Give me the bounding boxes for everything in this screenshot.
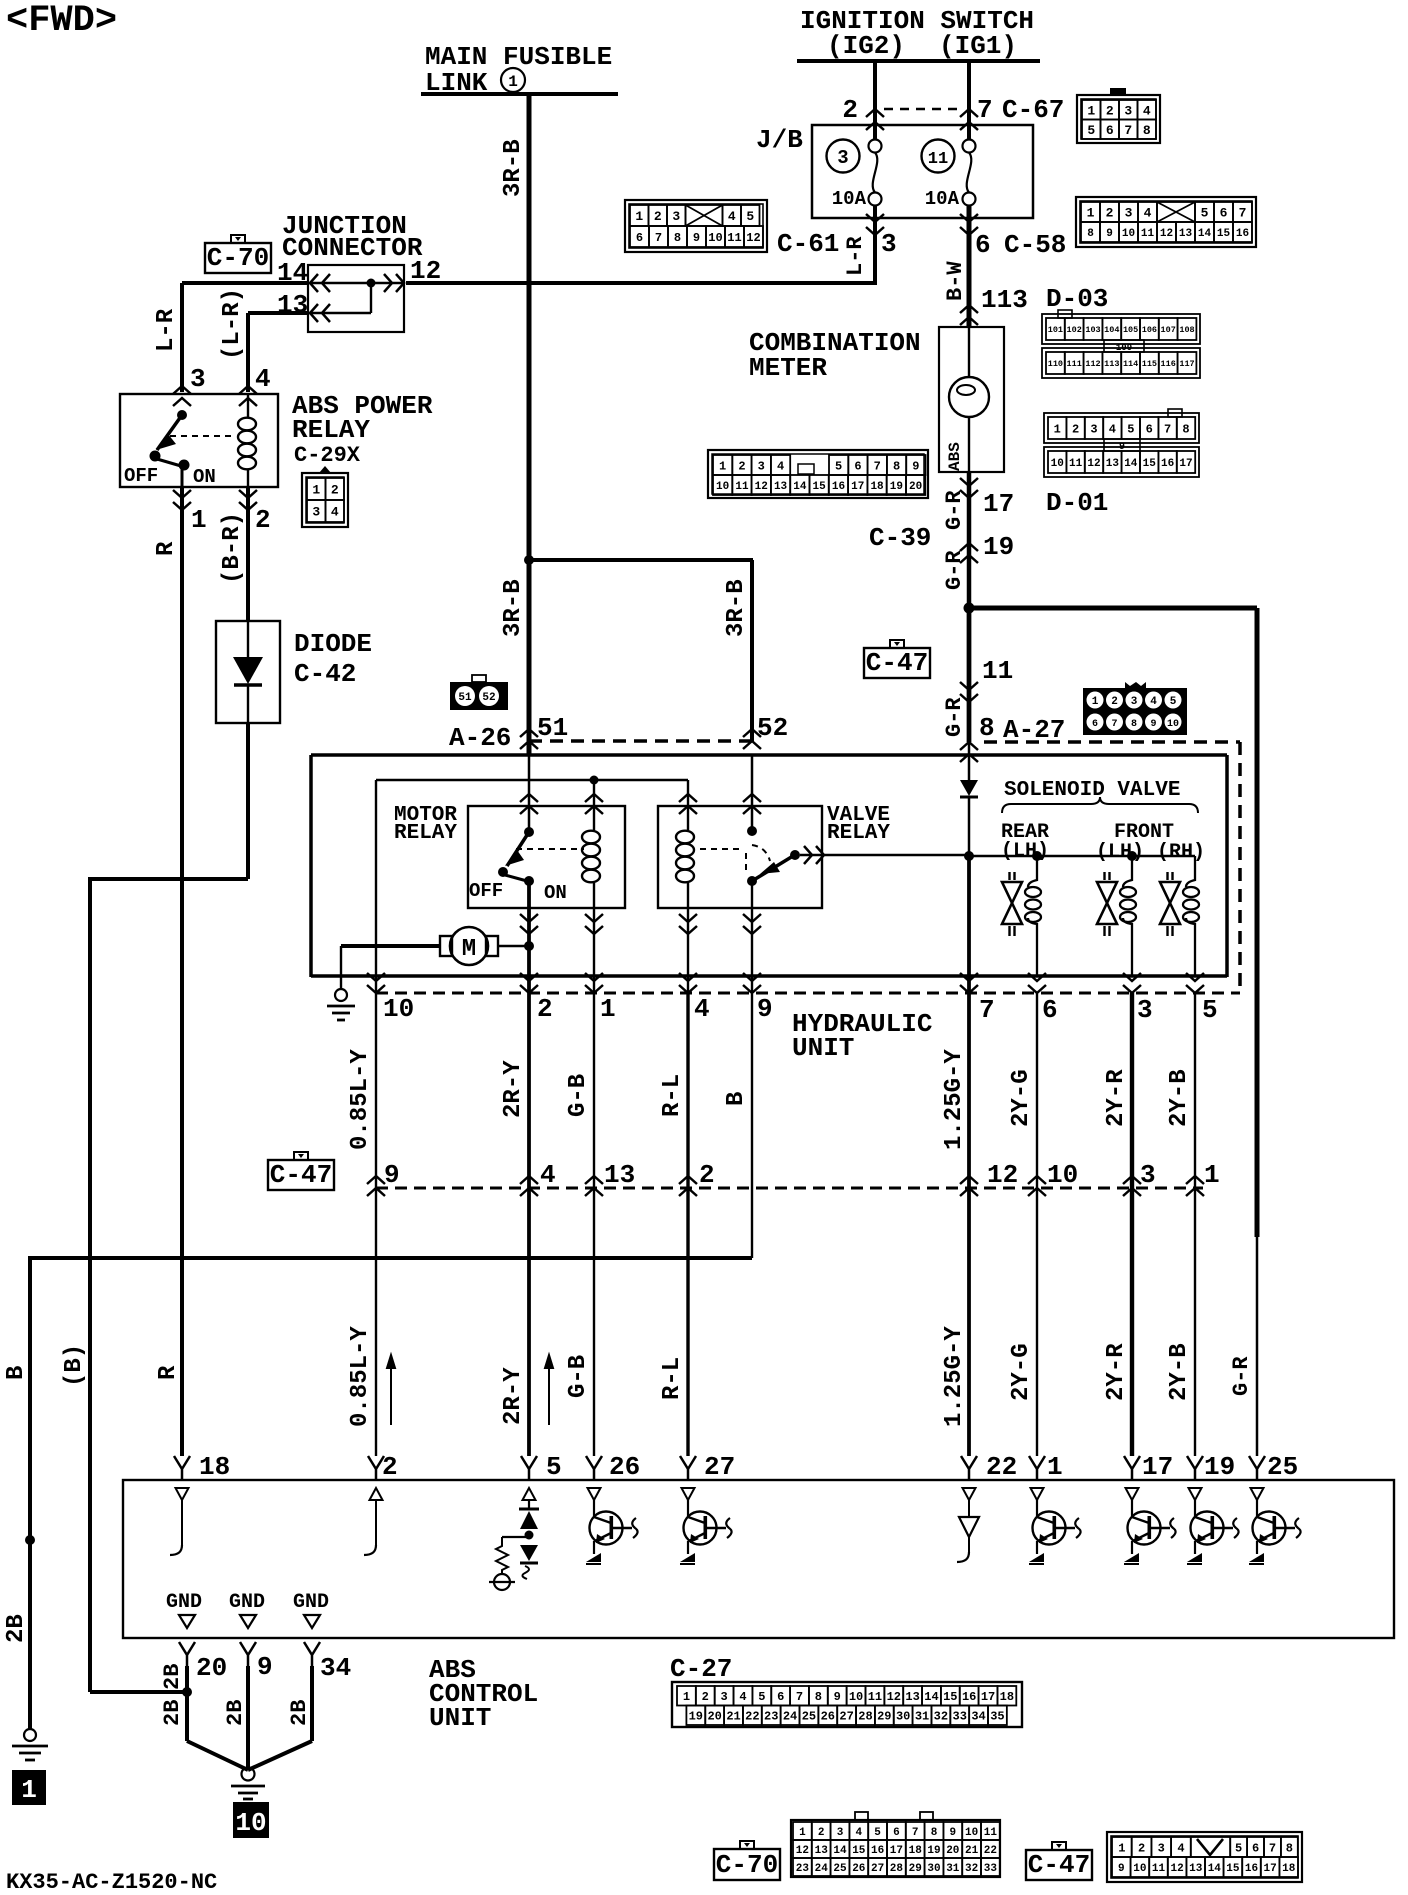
pump motor M [341,944,440,948]
svg-text:5: 5 [1201,206,1209,221]
wire G-R branch lower thin [1256,1237,1259,1456]
wire L-R junction to relay pin 3 [182,281,308,285]
svg-text:19: 19 [890,481,903,493]
svg-text:18: 18 [199,1452,230,1482]
pin 19 arrows [960,543,978,563]
svg-text:D-01: D-01 [1046,488,1108,518]
gnd triangle 20 [179,1615,195,1628]
svg-text:9: 9 [257,1652,273,1682]
wire 51 into motor relay [528,756,531,832]
svg-text:9: 9 [1118,1863,1125,1875]
pin 27 arrow [680,1456,696,1480]
svg-text:3R-B: 3R-B [500,139,527,197]
svg-text:1: 1 [600,994,616,1024]
svg-text:2: 2 [842,95,858,125]
svg-text:5: 5 [1235,1841,1242,1855]
svg-text:3: 3 [837,147,848,169]
output transistor pin 19 [1189,1488,1202,1500]
svg-text:6: 6 [1042,995,1058,1025]
svg-text:11: 11 [928,150,948,169]
connector C-70 33-pin [791,1820,1000,1877]
svg-text:3: 3 [672,209,680,224]
svg-text:1: 1 [1047,1452,1063,1482]
svg-text:12: 12 [410,256,441,286]
circled fuse number 3 [827,140,860,173]
svg-text:10A: 10A [832,188,867,210]
svg-text:1: 1 [1092,696,1099,708]
circled fuse number 11 [922,140,955,173]
svg-text:2Y-G: 2Y-G [1008,1343,1035,1401]
pin 12 arrows [384,274,404,292]
svg-text:20: 20 [196,1653,227,1683]
svg-text:17: 17 [1179,458,1192,470]
connector C-47 18-pin [1107,1832,1302,1882]
wire 2Y-R pin3 to ABS pin 17 [1130,993,1134,1456]
svg-text:8: 8 [1087,228,1094,240]
solenoid coil front LH [1123,857,1132,887]
svg-text:2: 2 [702,1690,709,1704]
svg-text:5: 5 [874,1827,881,1839]
svg-text:A-26: A-26 [449,723,511,753]
svg-text:1: 1 [1118,1841,1125,1855]
output transistor pin 25 [1251,1488,1264,1500]
svg-text:3: 3 [881,229,897,259]
svg-text:8: 8 [1286,1841,1293,1855]
circled 1 main fusible link [501,68,525,92]
svg-text:(IG2): (IG2) [827,31,905,61]
svg-text:19: 19 [983,532,1014,562]
pin 34 arrow [304,1642,320,1666]
svg-text:2: 2 [1111,696,1118,708]
svg-text:2Y-B: 2Y-B [1166,1069,1193,1127]
svg-text:7: 7 [1269,1841,1276,1855]
svg-text:2: 2 [738,459,745,473]
svg-text:OFF: OFF [124,465,158,487]
svg-text:12: 12 [1087,458,1100,470]
svg-text:27: 27 [871,1863,884,1875]
svg-text:35: 35 [990,1710,1004,1724]
svg-text:19: 19 [689,1710,703,1724]
relay mechanical dashed link [170,435,236,437]
svg-text:2B: 2B [287,1700,312,1726]
svg-text:2: 2 [537,994,553,1024]
svg-text:25: 25 [802,1710,816,1724]
svg-text:8: 8 [979,713,995,743]
output transistor pin 1 [1031,1488,1044,1500]
svg-text:12: 12 [746,231,760,245]
combination meter box [939,327,1004,472]
svg-text:29: 29 [909,1863,922,1875]
svg-text:13: 13 [604,1160,635,1190]
wire L-R from J/B pin3 down and left [873,205,877,283]
pin 11 arrows C-47 [960,682,978,702]
pin 7 arrows [960,109,978,130]
pin 13 arrows [310,304,330,322]
wire G-R to A-27 pin 8 [967,608,972,742]
svg-text:(RH): (RH) [1157,841,1205,864]
svg-text:11: 11 [984,1827,998,1839]
svg-text:5: 5 [1127,422,1134,436]
svg-text:18: 18 [1282,1863,1296,1875]
svg-text:113: 113 [1104,359,1119,369]
flow arrow 2R-Y [545,1355,553,1425]
svg-text:10: 10 [1133,1863,1146,1875]
svg-text:<FWD>: <FWD> [6,0,117,42]
solenoid valve front RH [1166,872,1168,880]
svg-text:10: 10 [1047,1160,1078,1190]
svg-text:24: 24 [783,1710,797,1724]
svg-text:107: 107 [1161,325,1176,335]
svg-text:28: 28 [858,1710,872,1724]
svg-text:11: 11 [1152,1863,1166,1875]
svg-text:16: 16 [962,1690,976,1704]
svg-text:2B: 2B [223,1700,248,1726]
svg-text:26: 26 [821,1710,835,1724]
node solenoid bus rear [1032,851,1042,861]
svg-text:34: 34 [320,1653,351,1683]
svg-text:6: 6 [1106,123,1114,138]
svg-text:10: 10 [1167,719,1179,730]
svg-text:0.85L-Y: 0.85L-Y [347,1049,374,1150]
svg-text:10: 10 [965,1827,978,1839]
svg-text:4: 4 [739,1690,746,1704]
svg-text:51: 51 [458,692,472,704]
svg-text:OFF: OFF [469,880,503,902]
svg-text:4: 4 [777,459,784,473]
svg-text:10: 10 [1122,228,1135,240]
solenoid valve front LH [1103,872,1105,880]
pin 8 arrows [960,742,978,762]
svg-text:9: 9 [834,1690,841,1704]
wire IG2 drop to pin 2 [873,61,877,140]
valve relay coil [687,780,689,830]
wire (L-R) junction pin13 to relay pin 4 [248,311,308,315]
svg-text:10A: 10A [925,188,960,210]
fuse 3 10A [869,140,882,153]
svg-text:2: 2 [1106,206,1114,221]
svg-text:6: 6 [1146,422,1153,436]
svg-text:RELAY: RELAY [394,822,457,845]
svg-text:7: 7 [977,95,993,125]
svg-text:108: 108 [1179,325,1194,335]
svg-text:UNIT: UNIT [792,1033,854,1063]
node junction connector splice [367,279,376,288]
svg-text:9: 9 [949,1827,956,1839]
svg-text:26: 26 [852,1863,865,1875]
svg-text:102: 102 [1067,325,1082,335]
svg-text:11: 11 [735,481,749,493]
svg-text:R: R [153,541,180,556]
svg-text:1: 1 [1054,422,1061,436]
svg-text:2Y-B: 2Y-B [1166,1343,1193,1401]
svg-text:13: 13 [815,1845,829,1857]
diode C-42 symbol [247,621,249,657]
input symbol pin 22 [963,1488,976,1500]
svg-text:18: 18 [909,1845,923,1857]
svg-text:17: 17 [983,489,1014,519]
node splice 2B [182,1687,192,1697]
svg-text:4: 4 [1150,696,1157,708]
svg-text:23: 23 [796,1863,810,1875]
svg-text:22: 22 [745,1710,759,1724]
svg-text:12: 12 [796,1845,809,1857]
wire from junction pin 12 to J/B (L-R) [308,282,404,284]
output transistor pin 27 [682,1488,695,1500]
wire (B) to splice with 2B [90,1690,187,1694]
svg-text:3R-B: 3R-B [723,579,750,637]
node 3R-B branch [524,555,534,565]
svg-text:32: 32 [934,1710,948,1724]
svg-text:7: 7 [912,1827,919,1839]
svg-text:2: 2 [331,483,339,498]
svg-text:3: 3 [1090,422,1097,436]
pin 20 arrow [179,1642,195,1666]
connector D-01 [1044,413,1199,443]
svg-text:22: 22 [984,1845,997,1857]
svg-text:4: 4 [1109,422,1116,436]
svg-text:16: 16 [1245,1863,1258,1875]
wire G-B pin1 to ABS pin 26 [593,993,595,1456]
svg-text:14: 14 [924,1690,938,1704]
svg-text:(IG1): (IG1) [939,31,1017,61]
svg-text:3: 3 [1140,1160,1156,1190]
svg-text:10: 10 [708,231,722,245]
svg-text:3: 3 [1158,1841,1165,1855]
svg-text:18: 18 [1000,1690,1014,1704]
svg-text:6: 6 [1092,719,1098,730]
solenoid valve brace [1002,797,1198,813]
svg-text:4: 4 [331,505,339,520]
svg-text:17: 17 [890,1845,903,1857]
pin 2 arrow ABS [368,1456,384,1480]
svg-text:1.25G-Y: 1.25G-Y [941,1049,968,1150]
motor relay coil output arrows [585,914,603,934]
svg-text:ON: ON [544,882,567,904]
svg-text:34: 34 [971,1710,985,1724]
svg-text:18: 18 [870,481,884,493]
svg-text:5: 5 [746,209,754,224]
svg-text:7: 7 [796,1690,803,1704]
wire (B) diode to ground bus [246,723,250,879]
wire B-W from J/B pin6 [967,205,972,327]
diode on solenoid feed [960,780,978,796]
svg-text:20: 20 [707,1710,721,1724]
svg-text:3: 3 [1137,995,1153,1025]
svg-text:4: 4 [540,1160,556,1190]
svg-text:31: 31 [946,1863,960,1875]
svg-text:112: 112 [1085,359,1100,369]
connector C-27 35-pin [672,1682,1022,1727]
svg-text:L-R: L-R [843,236,868,276]
svg-text:8: 8 [674,231,681,245]
connector symbol C-29X [302,473,348,527]
relay switch wire to pin 1 [181,465,184,487]
svg-text:RELAY: RELAY [292,415,370,445]
svg-text:8: 8 [1131,719,1137,730]
svg-text:19: 19 [1204,1452,1235,1482]
svg-text:1: 1 [1087,103,1095,118]
motor relay switch [524,827,534,837]
svg-text:9: 9 [757,994,773,1024]
svg-text:105: 105 [1123,325,1138,335]
svg-text:SOLENOID VALVE: SOLENOID VALVE [1004,779,1180,802]
svg-text:25: 25 [1267,1452,1298,1482]
svg-text:52: 52 [757,713,788,743]
svg-text:3: 3 [837,1827,844,1839]
svg-text:5: 5 [546,1452,562,1482]
flow arrow 0.85L-Y [387,1355,395,1425]
svg-text:104: 104 [1104,325,1119,335]
svg-text:4: 4 [1144,206,1152,221]
svg-text:11: 11 [868,1690,882,1704]
svg-text:3: 3 [1125,206,1133,221]
ground hydraulic unit motor [335,989,347,1001]
svg-text:1: 1 [799,1827,806,1839]
svg-text:G-R: G-R [1229,1356,1254,1396]
svg-text:C-29X: C-29X [294,443,361,468]
pin 9 arrow gnd [240,1642,256,1666]
svg-text:C-67: C-67 [1002,95,1064,125]
svg-text:C-39: C-39 [869,523,931,553]
svg-text:27: 27 [839,1710,853,1724]
svg-text:10: 10 [1051,458,1064,470]
hydraulic unit lower dashed connector line [376,992,1240,995]
svg-text:22: 22 [986,1452,1017,1482]
svg-text:6: 6 [636,231,643,245]
wire 2Y-B pin5 to ABS pin 19 [1194,993,1196,1456]
pin 18 arrow [174,1456,190,1480]
svg-text:13: 13 [905,1690,919,1704]
svg-text:13: 13 [1106,458,1120,470]
node G-R branch to solenoid feed [964,603,975,614]
svg-text:6: 6 [1252,1841,1259,1855]
svg-text:KX35-AC-Z1520-NC: KX35-AC-Z1520-NC [6,1870,217,1890]
svg-text:3: 3 [1131,696,1138,708]
relay coil [247,394,249,417]
wire 2R-Y pin2 to ABS pin 5 [527,993,531,1456]
wire G-R from meter to hydraulic unit [967,472,972,742]
pin 22 arrow [961,1456,977,1480]
valve relay box [658,806,822,908]
svg-text:3: 3 [190,364,206,394]
svg-text:9: 9 [912,459,919,473]
svg-text:2Y-R: 2Y-R [1103,1343,1130,1401]
svg-text:12: 12 [1160,228,1173,240]
pin 6 arrows below J/B [960,214,978,235]
connector C-58 16-pin [1076,197,1256,247]
svg-text:14: 14 [1198,228,1212,240]
svg-text:1: 1 [21,1775,37,1805]
svg-text:2: 2 [1138,1841,1145,1855]
svg-text:30: 30 [927,1863,940,1875]
svg-text:C-27: C-27 [670,1654,732,1684]
svg-text:114: 114 [1123,359,1138,369]
svg-text:16: 16 [871,1845,884,1857]
svg-text:4: 4 [694,994,710,1024]
connector symbol A-27 [1083,688,1187,735]
pin 10 arrows C-47 [1028,1176,1046,1196]
pin 17 arrow ABS [1124,1456,1140,1480]
wire R-L pin4 to ABS pin 27 [686,993,689,1456]
bus main fusible link [421,92,618,96]
wire 3R-B branch to pin 52 [529,558,753,562]
ground ABS control unit [242,1768,255,1781]
wire 0.85L-Y pin10 to ABS pin 2 [375,780,377,1456]
svg-text:G-R: G-R [942,490,967,530]
connector C-67 8-pin [1077,95,1160,143]
svg-text:GND: GND [293,1591,329,1614]
svg-text:7: 7 [1164,422,1171,436]
wire 2B pin 9 [246,1666,250,1770]
svg-text:15: 15 [852,1845,866,1857]
pin 9 arrows C-47 [367,1176,385,1196]
svg-text:28: 28 [890,1863,904,1875]
svg-text:7: 7 [655,231,662,245]
svg-text:33: 33 [984,1863,998,1875]
svg-text:17: 17 [1263,1863,1276,1875]
pin 12 arrows C-47 [960,1176,978,1196]
pin 113 arrows [960,305,978,325]
gnd triangle 9 [240,1615,256,1628]
wire 2R-Y motor relay to pin 2 [527,881,531,993]
hydraulic unit dashed boundary A-27 [984,740,1240,744]
svg-text:2Y-G: 2Y-G [1008,1069,1035,1127]
wire 2B pin 20 [185,1666,189,1741]
node motor to switch wire [524,941,534,951]
svg-text:(B): (B) [61,1344,88,1387]
svg-text:11: 11 [727,231,741,245]
svg-text:8: 8 [893,459,900,473]
motor relay dashed link [516,848,584,850]
svg-text:(B-R): (B-R) [219,512,246,584]
svg-text:5: 5 [835,459,842,473]
svg-text:13: 13 [774,481,788,493]
svg-text:2Y-R: 2Y-R [1103,1069,1130,1127]
svg-text:51: 51 [537,713,568,743]
relay pin 2 arrows [239,490,257,510]
output transistor pin 17 [1126,1488,1139,1500]
svg-text:D-03: D-03 [1046,284,1108,314]
svg-text:16: 16 [1161,458,1174,470]
pin 2 arrows C-47 [679,1176,697,1196]
svg-text:8: 8 [815,1690,822,1704]
svg-text:2: 2 [699,1160,715,1190]
svg-text:ABS: ABS [946,442,964,471]
wire B left drop [28,1258,32,1729]
svg-text:(LH): (LH) [1001,840,1049,863]
svg-text:15: 15 [1217,228,1231,240]
svg-text:24: 24 [815,1863,829,1875]
svg-text:4: 4 [255,364,271,394]
svg-text:12: 12 [987,1160,1018,1190]
svg-text:7: 7 [1111,719,1117,730]
svg-text:2: 2 [1072,422,1079,436]
input symbol pin 2 [370,1488,383,1500]
svg-text:27: 27 [704,1452,735,1482]
svg-text:2B: 2B [3,1614,30,1643]
svg-text:103: 103 [1085,325,1100,335]
svg-text:B: B [3,1366,30,1380]
motor ground wire [340,946,342,989]
wire 2Y-G pin6 to ABS pin 1 [1036,993,1038,1456]
connector C-67 dashed link pins 2-7 [884,108,960,111]
input symbol pin 18 [176,1488,189,1500]
svg-text:17: 17 [1142,1452,1173,1482]
svg-text:111: 111 [1067,359,1082,369]
solenoid coil rear LH [1028,857,1037,887]
zener clamp circuit pin 5 [523,1488,536,1500]
svg-text:25: 25 [833,1863,847,1875]
